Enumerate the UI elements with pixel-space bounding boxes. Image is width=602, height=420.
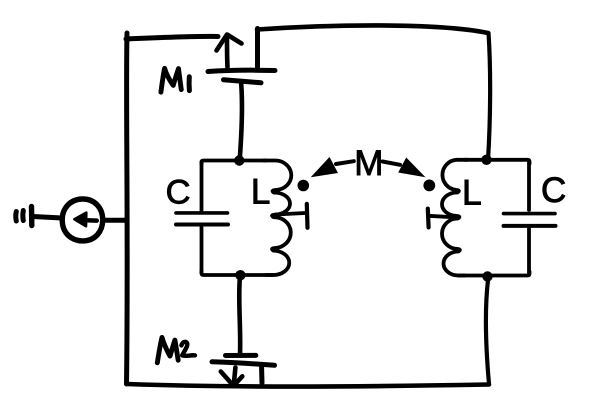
svg-text:L: L bbox=[462, 173, 482, 213]
svg-text:M: M bbox=[354, 144, 383, 183]
svg-text:L: L bbox=[251, 172, 270, 211]
svg-text:C: C bbox=[166, 174, 191, 212]
svg-text:C: C bbox=[541, 171, 566, 210]
